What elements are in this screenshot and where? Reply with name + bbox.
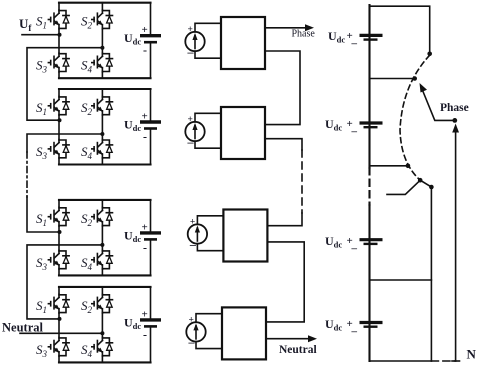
wire tap3 [370,279,432,281]
node cell4 right [100,331,104,335]
wire module3 out2 to module4 [266,242,304,322]
wire ladder dashed continuation [368,168,370,205]
wire into module3 [269,213,302,226]
svg-text:N: N [467,347,477,362]
wiper arrow to tap1 [423,92,455,121]
H-bridge cell 2 [36,89,161,165]
wire ladder vertical (solid top) [368,5,370,168]
wire cell1 right node to chain [27,48,102,121]
H-bridge cell 4 [36,287,161,363]
node cell1 left [58,33,62,37]
node lever [418,178,423,183]
wire module2 out2 down [265,139,302,150]
module U3 [188,210,268,262]
node phase [452,118,457,123]
dashed selector arc [400,55,430,180]
node tap1 [412,76,417,81]
svg-text:Phase: Phase [292,29,316,40]
wire chain into cell3 [27,197,59,232]
wire lever link [420,180,431,187]
wire switch output vertical [430,187,432,361]
module U2 [185,107,265,159]
node top tap [427,52,432,57]
wire dashed continuation middle [301,150,303,213]
wire dashed bottom to N [431,360,455,362]
wire Neutral output arrow [266,338,311,340]
battery B2 [360,121,383,124]
module U4 (bottom) [186,307,266,359]
node tap2 [406,164,411,169]
wire Uf to cell1 left node [22,34,59,36]
wire ladder vertical (solid bottom) [368,205,370,361]
battery B1 [360,34,383,37]
node cell2 right [100,132,104,136]
wire tap1 [370,78,415,80]
wire ladder top rail and drop [370,6,430,54]
svg-text:_: _ [351,239,358,251]
wire tap2 [370,165,408,167]
battery B4 [360,321,383,324]
wire dash-dot continuation [26,152,28,197]
svg-text:Neutral: Neutral [2,321,43,335]
wire cell2 right node to chain (with dash-dot continuation) [27,134,102,152]
svg-text:_: _ [351,322,358,334]
svg-text:_: _ [351,122,358,134]
wire module1 out2 to module2 [265,51,300,125]
node cell1 right [100,46,104,50]
wire N foot [452,360,460,362]
wire phase vertical with up arrow [455,131,457,361]
node switch output [429,185,434,190]
node cell4 left [58,317,62,321]
wire cell3 right node to chain [27,245,102,319]
module U1 (top) [185,17,265,69]
H-bridge cell 3 [36,200,161,276]
svg-text:Neutral: Neutral [279,344,317,356]
wire neutral to cell4 right node [20,332,102,334]
svg-text:Phase: Phase [440,102,469,114]
svg-text:_: _ [351,34,358,46]
H-bridge cell 1 [36,3,161,79]
node cell3 left [58,230,62,234]
node cell2 left [58,118,62,122]
wire ladder bottom rail [370,360,432,362]
node cell3 right [100,243,104,247]
switch lever stub [387,180,420,194]
battery B3 [360,238,383,241]
wire Phase output arrow [265,27,308,29]
